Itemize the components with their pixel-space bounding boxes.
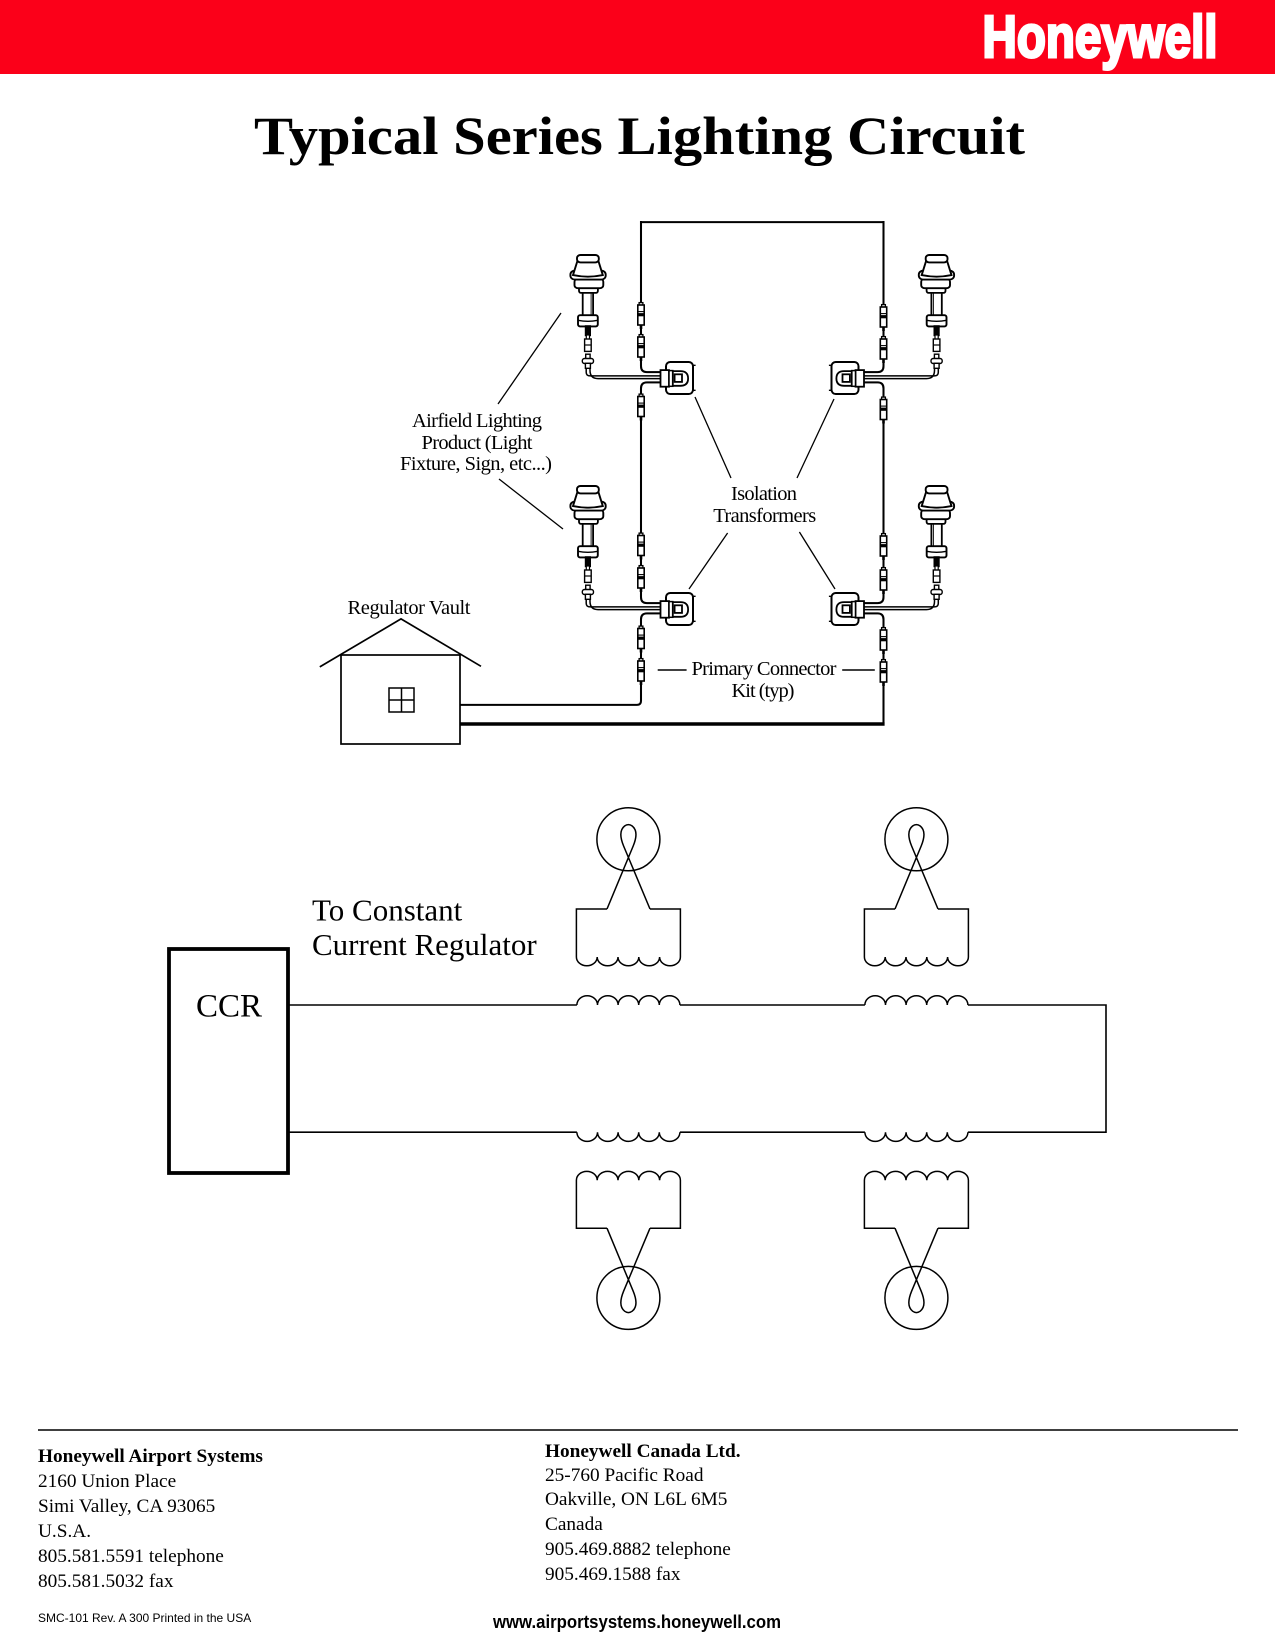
svg-text:Current Regulator: Current Regulator xyxy=(312,927,537,962)
svg-text:Airfield Lighting: Airfield Lighting xyxy=(412,410,542,432)
svg-text:805.581.5591 telephone: 805.581.5591 telephone xyxy=(38,1546,224,1567)
svg-text:Isolation: Isolation xyxy=(731,483,797,505)
svg-text:Honeywell Airport Systems: Honeywell Airport Systems xyxy=(38,1446,263,1467)
svg-text:Honeywell Canada Ltd.: Honeywell Canada Ltd. xyxy=(545,1441,741,1462)
svg-text:SMC-101 Rev. A 300 Printed in: SMC-101 Rev. A 300 Printed in the USA xyxy=(38,1611,251,1625)
svg-text:Canada: Canada xyxy=(545,1514,603,1535)
svg-text:Transformers: Transformers xyxy=(713,505,816,527)
svg-text:Honeywell: Honeywell xyxy=(983,4,1218,70)
svg-text:Primary Connector: Primary Connector xyxy=(692,658,837,680)
svg-text:Simi Valley, CA 93065: Simi Valley, CA 93065 xyxy=(38,1496,215,1517)
svg-text:Product (Light: Product (Light xyxy=(422,432,533,454)
svg-text:Kit (typ): Kit (typ) xyxy=(732,680,795,702)
svg-text:www.airportsystems.honeywell.c: www.airportsystems.honeywell.com xyxy=(492,1612,781,1632)
svg-text:Typical Series Lighting Circui: Typical Series Lighting Circuit xyxy=(254,105,1025,166)
svg-text:805.581.5032 fax: 805.581.5032 fax xyxy=(38,1571,174,1592)
svg-text:CCR: CCR xyxy=(196,989,262,1025)
svg-text:25-760 Pacific Road: 25-760 Pacific Road xyxy=(545,1465,704,1486)
svg-text:U.S.A.: U.S.A. xyxy=(38,1521,91,1542)
svg-text:To Constant: To Constant xyxy=(312,893,463,928)
svg-text:Oakville, ON L6L 6M5: Oakville, ON L6L 6M5 xyxy=(545,1489,727,1510)
svg-text:Regulator Vault: Regulator Vault xyxy=(348,597,471,619)
svg-text:2160 Union Place: 2160 Union Place xyxy=(38,1471,176,1492)
svg-text:905.469.1588 fax: 905.469.1588 fax xyxy=(545,1564,681,1585)
svg-text:905.469.8882 telephone: 905.469.8882 telephone xyxy=(545,1539,731,1560)
svg-text:Fixture, Sign, etc...): Fixture, Sign, etc...) xyxy=(400,453,552,475)
